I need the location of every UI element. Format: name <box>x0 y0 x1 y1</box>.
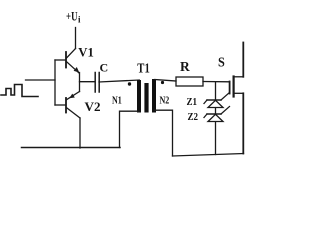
wire primary ground rail <box>22 147 121 149</box>
wire base vertical <box>54 60 56 105</box>
svg-text:V1: V1 <box>78 44 94 59</box>
node dot N2 polarity <box>161 81 164 84</box>
square-wave input symbol <box>1 85 38 97</box>
wire output vertical node <box>79 73 81 92</box>
MOSFET S <box>230 43 244 154</box>
label +Ui <box>66 8 81 24</box>
svg-text:T1: T1 <box>137 62 150 77</box>
wire R to gate <box>203 81 229 83</box>
transistor V1 <box>66 28 79 74</box>
wire input to bases <box>26 79 56 81</box>
svg-text:V2: V2 <box>85 99 101 114</box>
svg-text:+U: +U <box>66 8 78 23</box>
wire N1 bottom to rail <box>120 111 140 147</box>
svg-text:C: C <box>100 61 109 75</box>
svg-text:R: R <box>180 59 190 74</box>
zener diode Z2 <box>204 107 230 122</box>
wire N2 bottom down <box>154 110 173 156</box>
wire V1 base lead <box>55 59 66 61</box>
resistor R <box>176 77 203 86</box>
wire zener branch vertical <box>215 82 217 155</box>
capacitor C <box>95 73 99 93</box>
svg-text:i: i <box>78 14 81 24</box>
svg-text:N1: N1 <box>112 94 122 106</box>
node dot N1 polarity <box>128 82 131 85</box>
svg-text:S: S <box>218 54 225 69</box>
wire capacitor to N1 top <box>99 80 139 83</box>
zener diode Z1 <box>204 93 230 108</box>
transistor V2 <box>66 92 80 149</box>
wire output to capacitor <box>80 81 95 83</box>
wire N2 top to R <box>155 80 176 82</box>
wire secondary bottom <box>173 154 244 157</box>
wire V2 base lead <box>55 104 66 106</box>
transformer T1 windings and core <box>137 79 156 113</box>
svg-text:N2: N2 <box>160 94 170 106</box>
svg-text:Z2: Z2 <box>188 111 199 123</box>
svg-text:Z1: Z1 <box>187 96 198 108</box>
